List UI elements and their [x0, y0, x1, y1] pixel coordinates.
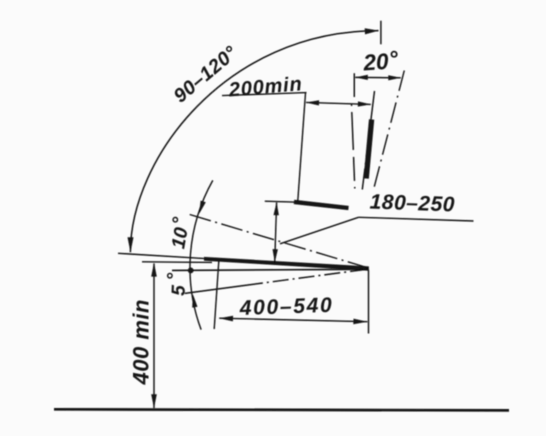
- ground line (floor): [54, 409, 509, 410]
- display centerline dash-dot: [362, 91, 374, 190]
- 180-250 bottom arrow: [273, 249, 278, 262]
- 200min right arrow: [358, 101, 371, 106]
- 180-250 shelf: [359, 217, 474, 221]
- 20deg left extension solid: [353, 73, 355, 97]
- 400-540 dimension line: [219, 318, 367, 322]
- 400min dimension line: [153, 264, 155, 409]
- angle-arc bottom arrow: [192, 294, 197, 307]
- angle arc through eye: [190, 180, 213, 329]
- 20deg dimension line: [355, 76, 401, 78]
- big 90-120 arc: [130, 31, 378, 253]
- 400-540 left extension: [214, 261, 219, 329]
- tick at big-arc end: [380, 21, 382, 45]
- 180-250 dimension line: [275, 203, 277, 264]
- horizontal line through eye: [172, 269, 369, 270]
- 180-250 leader: [280, 217, 359, 244]
- 400min reference line at eye level: [142, 261, 212, 264]
- 5deg line solid part: [185, 285, 247, 293]
- 400min top arrow: [151, 263, 157, 277]
- eye point: [188, 268, 194, 274]
- keyboard (thick): [294, 202, 349, 208]
- big-arc top arrow: [365, 28, 379, 34]
- big-arc bottom arrow: [128, 237, 134, 252]
- sight line left extension: [118, 253, 207, 258]
- 200min shelf: [222, 93, 307, 96]
- svg-text:180–250: 180–250: [369, 191, 455, 217]
- 20deg slanted dash-dot line: [373, 71, 404, 191]
- display screen (thick): [366, 120, 371, 179]
- 200min dimension line: [306, 102, 371, 104]
- 400min bottom arrow: [151, 394, 157, 408]
- svg-text:10°: 10°: [165, 215, 195, 250]
- 400-540 right extension: [368, 270, 370, 334]
- sight line (thick): [204, 257, 369, 271]
- 200min left arrow: [306, 100, 319, 105]
- 400-540 left arrow: [219, 316, 233, 322]
- 180-250 top arrow: [274, 202, 279, 215]
- angle-arc top arrow: [199, 201, 206, 214]
- 20deg right arrow: [388, 75, 401, 80]
- 400-540 right arrow: [353, 319, 367, 325]
- svg-text:5°: 5°: [164, 272, 191, 296]
- 20deg left extension dash-dot (vertical reference): [352, 104, 355, 189]
- svg-text:20°: 20°: [361, 46, 399, 75]
- svg-text:400 min: 400 min: [129, 299, 154, 385]
- keyboard extension line: [265, 201, 298, 202]
- svg-text:400–540: 400–540: [238, 294, 333, 320]
- 20deg left arrow: [355, 75, 368, 80]
- svg-text:200min: 200min: [227, 73, 303, 101]
- 200min left extension: [298, 93, 306, 201]
- 5deg line dash-dot part: [247, 269, 369, 285]
- 10deg line (dash-dot): [190, 215, 369, 269]
